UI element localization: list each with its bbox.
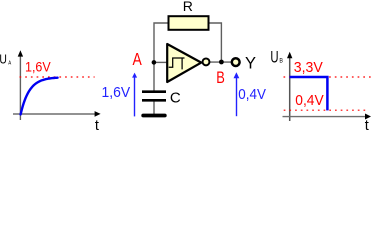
svg-text:R: R	[183, 0, 193, 14]
svg-text:1,6V: 1,6V	[25, 60, 51, 75]
svg-text:B: B	[216, 70, 225, 88]
svg-text:U: U	[270, 47, 278, 66]
svg-text:C: C	[170, 89, 181, 106]
svg-text:3,3V: 3,3V	[294, 60, 323, 76]
svg-text:1,6V: 1,6V	[102, 84, 131, 101]
svg-text:A: A	[133, 50, 143, 69]
svg-text:0,4V: 0,4V	[295, 93, 324, 109]
svg-text:B: B	[279, 58, 283, 65]
svg-text:A: A	[8, 60, 12, 66]
svg-text:t: t	[365, 118, 369, 131]
svg-text:0,4V: 0,4V	[238, 86, 266, 103]
svg-text:U: U	[0, 52, 7, 66]
svg-text:Y: Y	[245, 55, 256, 73]
svg-text:t: t	[95, 118, 99, 131]
